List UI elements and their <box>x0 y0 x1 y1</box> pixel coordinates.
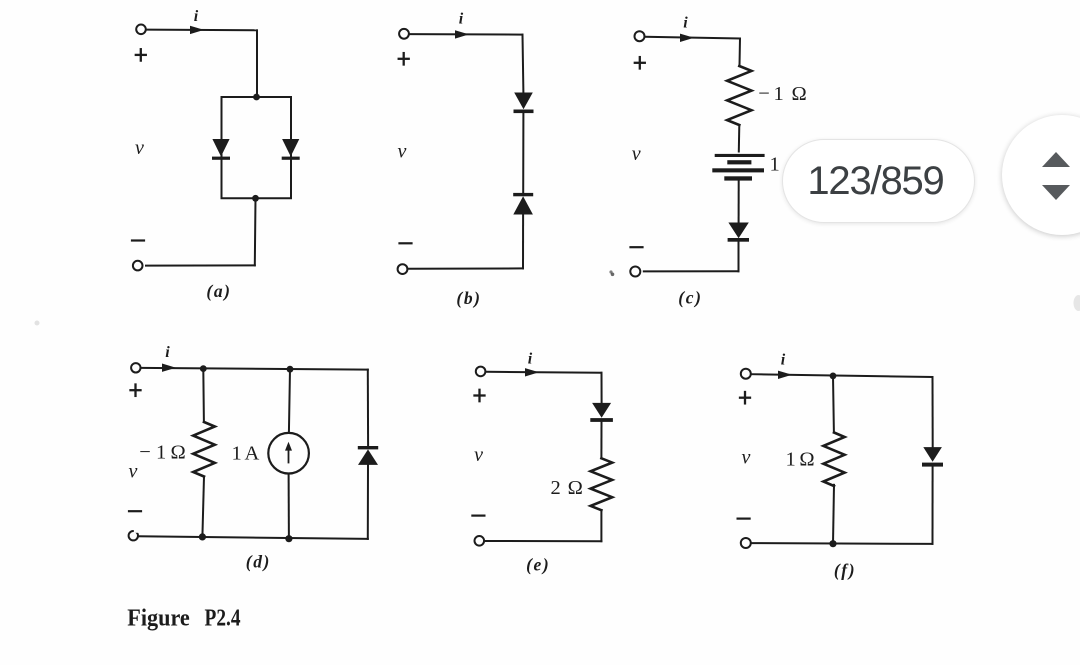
current arrow i (e) <box>525 368 539 376</box>
wire (b) bottom horizontal <box>408 267 524 269</box>
node (d) top of resistor branch <box>200 365 207 372</box>
wire (c) top horizontal <box>645 37 740 39</box>
wire (f) below diode <box>932 467 934 544</box>
label minus (c) <box>631 246 643 248</box>
svg-text:i: i <box>528 351 533 368</box>
label minus (e) <box>472 514 484 516</box>
current arrow i (a) <box>190 26 204 34</box>
diode (f), pointing down <box>922 447 943 467</box>
wire (b) right vertical lower <box>522 215 524 269</box>
circuit (e) terminal + (top-left open circle) <box>476 367 486 377</box>
resistor -1 ohm (c) <box>727 66 751 125</box>
wire (c) between resistor and battery <box>738 125 741 152</box>
terminal - (c) bottom-left open circle <box>630 267 640 277</box>
battery 1 V (c) <box>712 154 764 181</box>
wire (b) right vertical upper <box>522 35 525 93</box>
current arrow i (c) <box>680 34 694 42</box>
current source arrow (d) <box>288 446 290 463</box>
node (d) bottom of source branch <box>285 535 292 542</box>
svg-text:i: i <box>683 15 688 32</box>
scroll knob down triangle <box>1042 185 1070 200</box>
node (f) bottom of resistor branch <box>829 540 836 547</box>
node (d) top of source branch <box>287 366 294 373</box>
wire (a) parallel box outline <box>222 97 292 198</box>
label + (c) <box>635 62 645 64</box>
wire (d) source branch upper <box>289 369 290 433</box>
resistor 1 ohm (f) <box>823 433 844 487</box>
faint scan smudge left margin <box>35 321 40 326</box>
svg-text:(d): (d) <box>246 552 271 572</box>
wire (e) top horizontal <box>486 372 602 373</box>
scroll knob up triangle <box>1042 152 1070 167</box>
label + (a) <box>136 54 146 56</box>
wire (b) top horizontal <box>409 33 523 36</box>
svg-text:1Ω: 1Ω <box>786 449 815 471</box>
svg-text:i: i <box>459 11 464 28</box>
node (d) bottom of resistor branch <box>199 533 206 540</box>
circuit (d) terminal + (top-left open circle) <box>131 363 140 372</box>
terminal - (f) bottom-left open circle <box>741 538 751 548</box>
wire (f) resistor branch lower <box>833 485 834 544</box>
svg-text:v: v <box>742 446 751 468</box>
circuit (a) terminal + (top-left open circle) <box>136 25 146 35</box>
wire (f) resistor branch upper <box>832 376 835 433</box>
node bottom of box (a) <box>252 195 259 202</box>
label minus (a) <box>132 239 144 241</box>
label minus (d) <box>129 510 141 512</box>
stray scan dot left of (c) terminal <box>611 273 615 277</box>
label + (d) <box>131 389 141 391</box>
wire (c) between battery and diode <box>738 181 740 223</box>
wire (e) right vertical above diode <box>601 373 603 403</box>
wire (d) resistor branch lower <box>202 477 204 537</box>
svg-text:(f): (f) <box>834 560 856 580</box>
svg-text:v: v <box>397 141 406 163</box>
terminal - (e) bottom-left open circle <box>475 536 485 546</box>
label + (f) <box>740 397 750 399</box>
scroll knob circle <box>1002 115 1080 235</box>
svg-text:Figure: Figure <box>127 605 190 632</box>
terminal - (a) bottom-left open circle <box>133 261 143 271</box>
wire (a) bottom horizontal <box>146 264 255 266</box>
svg-text:v: v <box>632 143 641 165</box>
svg-text:(b): (b) <box>456 288 481 308</box>
terminal - (b) bottom-left open circle <box>398 264 408 274</box>
wire (c) right vertical above resistor <box>739 39 742 67</box>
svg-text:−1Ω: −1Ω <box>139 442 186 464</box>
resistor -1 ohm (d) <box>193 422 215 477</box>
wire (d) bottom horizontal <box>138 536 368 539</box>
resistor 2 ohm (e) <box>591 458 613 510</box>
wire (b) right vertical middle <box>522 113 524 193</box>
wire (a) bottom stub below box <box>254 198 257 265</box>
wire (a) top horizontal <box>146 29 257 32</box>
label minus (f) <box>738 517 750 519</box>
svg-text:v: v <box>135 137 144 159</box>
current arrow i (b) <box>455 30 469 38</box>
circuit (b) terminal + (top-left open circle) <box>399 29 409 39</box>
wire (c) below diode <box>738 242 740 272</box>
label + (b) <box>399 58 409 60</box>
svg-text:(e): (e) <box>526 555 550 575</box>
wire (f) top horizontal <box>751 374 933 377</box>
wire (e) below resistor <box>600 510 602 541</box>
wire (d) diode branch upper <box>367 370 369 447</box>
svg-text:−1Ω: −1Ω <box>758 83 806 105</box>
node top of box (a) <box>253 94 260 101</box>
circuit (f) terminal + (top-left open circle) <box>741 369 751 379</box>
svg-text:v: v <box>474 444 483 466</box>
current arrow i (f) <box>778 371 792 379</box>
diode lower (b), pointing up <box>513 193 533 215</box>
svg-text:(c): (c) <box>678 288 702 308</box>
svg-text:v: v <box>129 461 138 483</box>
wire (c) bottom horizontal <box>644 270 739 272</box>
wire (e) between diode and resistor <box>600 422 602 458</box>
wire (d) source branch lower <box>288 474 290 539</box>
wire (a) right-side drop into box <box>256 30 258 97</box>
diode left branch (a), pointing down <box>212 139 230 160</box>
svg-text:1A: 1A <box>232 443 260 465</box>
current arrow i (d) <box>162 364 176 372</box>
diode (e), pointing down <box>590 403 613 422</box>
svg-text:1: 1 <box>770 154 780 176</box>
label + (e) <box>475 394 485 396</box>
scan break in (d) bottom terminal circle <box>134 529 139 533</box>
svg-text:i: i <box>194 8 199 25</box>
faint scan smudge right edge <box>1074 295 1080 311</box>
page indicator pill 123/859 <box>782 139 975 223</box>
svg-text:i: i <box>781 352 786 369</box>
stray scan dot right of (b) <box>609 270 612 273</box>
svg-text:P2.4: P2.4 <box>205 605 241 632</box>
wire (f) bottom horizontal <box>751 542 933 545</box>
terminal - (d) bottom-left open circle <box>129 531 138 540</box>
svg-text:2Ω: 2Ω <box>551 477 583 499</box>
label minus (b) <box>400 242 412 244</box>
wire (d) resistor branch upper <box>202 369 205 422</box>
wire (d) top horizontal <box>141 368 368 370</box>
wire (e) bottom horizontal <box>484 540 601 542</box>
svg-text:(a): (a) <box>206 281 231 301</box>
current source 1 A (d) <box>268 433 309 474</box>
wire (d) diode branch lower <box>367 465 369 539</box>
diode upper (b), pointing down <box>514 93 534 114</box>
diode (d), pointing up <box>358 446 378 465</box>
wire (f) right vertical above diode <box>932 377 934 447</box>
diode (c), pointing down <box>728 223 749 242</box>
circuit (c) terminal + (top-left open circle) <box>635 31 645 41</box>
svg-text:i: i <box>165 344 170 361</box>
diode right branch (a), pointing down <box>282 139 300 160</box>
node (f) top of resistor branch <box>830 373 837 380</box>
